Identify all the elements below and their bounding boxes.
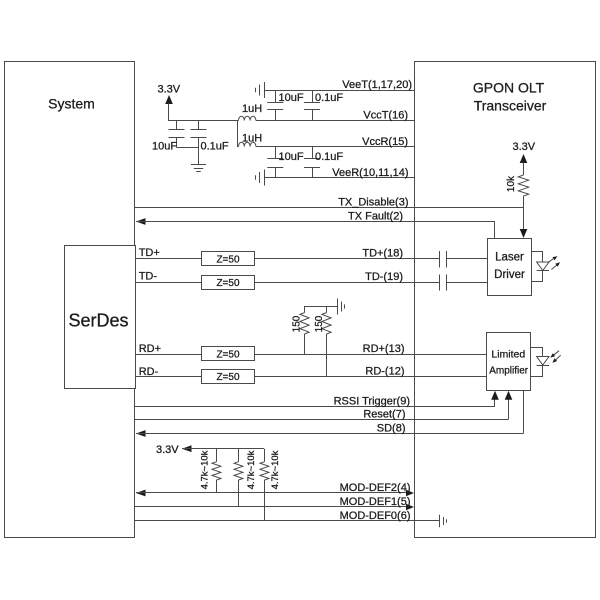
svg-text:Limited: Limited [491, 349, 525, 361]
svg-text:RSSI Trigger(9): RSSI Trigger(9) [334, 396, 410, 408]
svg-text:10uF: 10uF [152, 140, 177, 152]
svg-text:RD+(13): RD+(13) [363, 343, 405, 355]
svg-text:Z=50: Z=50 [216, 372, 240, 383]
svg-text:10k: 10k [506, 175, 517, 192]
svg-text:TD+(18): TD+(18) [362, 248, 403, 260]
svg-text:RD-: RD- [139, 366, 159, 378]
svg-text:VccR(15): VccR(15) [362, 136, 408, 148]
svg-text:4.7k~10k: 4.7k~10k [270, 450, 281, 489]
svg-text:System: System [48, 96, 95, 112]
svg-text:TD-: TD- [139, 271, 158, 283]
svg-text:SerDes: SerDes [68, 311, 128, 331]
svg-text:TX Fault(2): TX Fault(2) [348, 211, 403, 223]
svg-text:Transceiver: Transceiver [474, 98, 547, 114]
svg-text:Reset(7): Reset(7) [363, 409, 405, 421]
svg-text:TX_Disable(3): TX_Disable(3) [338, 197, 408, 209]
svg-text:MOD-DEF1(5): MOD-DEF1(5) [340, 496, 411, 508]
svg-text:4.7k~10k: 4.7k~10k [200, 450, 211, 489]
svg-text:VeeT(1,17,20): VeeT(1,17,20) [342, 79, 412, 91]
svg-text:Z=50: Z=50 [216, 350, 240, 361]
svg-text:150: 150 [314, 315, 325, 332]
svg-text:Driver: Driver [494, 269, 525, 281]
svg-text:3.3V: 3.3V [513, 141, 536, 153]
svg-text:1uH: 1uH [242, 133, 262, 145]
svg-text:TD+: TD+ [139, 247, 160, 259]
svg-text:3.3V: 3.3V [158, 84, 181, 96]
svg-text:VeeR(10,11,14): VeeR(10,11,14) [332, 167, 408, 179]
svg-text:RD-(12): RD-(12) [365, 366, 404, 378]
svg-text:0.1uF: 0.1uF [315, 151, 343, 163]
svg-text:GPON OLT: GPON OLT [473, 80, 545, 96]
svg-text:Z=50: Z=50 [216, 278, 240, 289]
svg-text:0.1uF: 0.1uF [315, 92, 343, 104]
svg-text:0.1uF: 0.1uF [201, 141, 229, 153]
svg-text:Amplifier: Amplifier [489, 366, 529, 377]
svg-text:VccT(16): VccT(16) [363, 110, 408, 122]
svg-text:3.3V: 3.3V [156, 444, 179, 456]
svg-text:150: 150 [292, 315, 303, 332]
svg-text:10uF: 10uF [279, 151, 304, 163]
svg-text:Z=50: Z=50 [216, 255, 240, 266]
svg-text:10uF: 10uF [279, 92, 304, 104]
svg-text:1uH: 1uH [242, 103, 262, 115]
svg-text:4.7k~10k: 4.7k~10k [246, 450, 257, 489]
svg-text:MOD-DEF2(4): MOD-DEF2(4) [340, 482, 411, 494]
svg-text:RD+: RD+ [139, 343, 161, 355]
svg-text:TD-(19): TD-(19) [365, 271, 403, 283]
svg-text:MOD-DEF0(6): MOD-DEF0(6) [340, 510, 411, 522]
svg-text:SD(8): SD(8) [377, 423, 406, 435]
svg-text:Laser: Laser [495, 252, 524, 264]
